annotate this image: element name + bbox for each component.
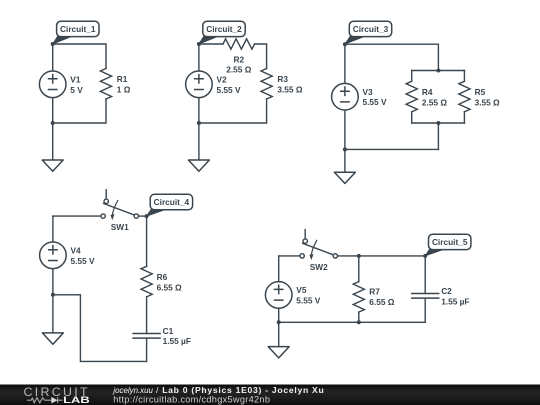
ground circuit5 — [268, 347, 289, 358]
wire circuit5 R7 branch — [358, 256, 360, 282]
wire R6 to C1 — [146, 297, 148, 334]
svg-text:V4: V4 — [71, 246, 82, 256]
node circuit5 bottom-mid — [357, 320, 361, 324]
svg-text:1.55 µF: 1.55 µF — [163, 336, 191, 346]
node circuit3 bottom-left — [343, 147, 347, 151]
svg-text:1.55 µF: 1.55 µF — [441, 296, 469, 306]
node circuit2 bottom — [197, 121, 201, 125]
svg-text:R6: R6 — [157, 272, 168, 282]
svg-text:R2: R2 — [233, 54, 244, 64]
voltage source V2 — [186, 71, 213, 98]
svg-text:1 Ω: 1 Ω — [117, 84, 131, 94]
wire circuit5 switch-left — [279, 255, 300, 257]
svg-text:5.55 V: 5.55 V — [363, 97, 387, 107]
wire circuit5 left — [278, 256, 280, 322]
wire circuit2 top-left — [199, 43, 223, 45]
node circuit4 switch-right — [145, 214, 149, 218]
switch SW2 — [300, 230, 338, 272]
node circuit5 switch-right — [357, 254, 361, 258]
svg-text:R3: R3 — [277, 74, 288, 84]
svg-text:C1: C1 — [163, 326, 174, 336]
label bubble Circuit_3 — [345, 21, 392, 44]
svg-text:SW1: SW1 — [111, 222, 129, 232]
svg-text:V5: V5 — [296, 285, 307, 295]
capacitor C2 — [412, 294, 439, 299]
svg-text:3.55 Ω: 3.55 Ω — [277, 84, 302, 94]
wire circuit5 C2 branch — [424, 256, 426, 294]
capacitor C1 — [133, 334, 160, 339]
svg-text:Circuit_4: Circuit_4 — [154, 197, 190, 207]
svg-text:V1: V1 — [70, 75, 81, 85]
wire circuit5 switch-right — [338, 255, 426, 257]
wire circuit1 left — [52, 44, 54, 123]
svg-text:C2: C2 — [441, 286, 452, 296]
wire to ground 3 — [344, 149, 346, 172]
wire R5 leads — [463, 71, 465, 124]
switch SW1 — [101, 190, 139, 232]
voltage source V3 — [332, 83, 359, 110]
wire circuit4 left — [52, 216, 54, 295]
voltage source V4 — [40, 242, 67, 269]
svg-text:5.55 V: 5.55 V — [296, 295, 320, 305]
voltage source V1 — [39, 71, 66, 98]
svg-text:Circuit_5: Circuit_5 — [432, 237, 468, 247]
node circuit5 corner — [423, 254, 427, 258]
ground circuit3 — [334, 172, 355, 183]
label bubble Circuit_5 — [425, 234, 471, 256]
ground circuit2 — [188, 160, 209, 171]
svg-text:6.55 Ω: 6.55 Ω — [369, 297, 394, 307]
node circuit1 top — [51, 42, 55, 46]
node circuit2 top — [197, 42, 201, 46]
svg-text:V3: V3 — [363, 87, 374, 97]
svg-text:R7: R7 — [369, 287, 380, 297]
svg-text:V2: V2 — [217, 75, 228, 85]
svg-text:Circuit_3: Circuit_3 — [353, 24, 389, 34]
node circuit1 bottom — [51, 121, 55, 125]
wire to ground 1 — [52, 123, 54, 160]
resistor R5 — [459, 81, 470, 112]
label bubble Circuit_2 — [199, 21, 245, 44]
wire circuit3 top — [345, 44, 439, 70]
wire circuit3 bottom — [345, 148, 439, 150]
svg-text:Circuit_1: Circuit_1 — [60, 24, 96, 34]
wire circuit4 bottom — [53, 295, 147, 362]
svg-text:5.55 V: 5.55 V — [217, 85, 241, 95]
logo squiggle resistor-diode — [27, 397, 63, 403]
node circuit4 bottom-left — [51, 293, 55, 297]
wire circuit2 right-bottom — [199, 99, 267, 123]
voltage source V5 — [265, 282, 292, 309]
svg-text:LAB: LAB — [63, 394, 90, 405]
svg-text:R1: R1 — [117, 74, 128, 84]
resistor R3 — [261, 69, 272, 100]
wire circuit4 switch-left — [53, 215, 101, 217]
node circuit3 parallel top — [436, 69, 440, 73]
wire C2 down — [424, 298, 426, 322]
wire circuit1 right-bottom — [53, 99, 106, 123]
resistor R2 — [223, 39, 255, 49]
ground circuit1 — [42, 160, 63, 171]
resistor R4 — [406, 81, 417, 112]
resistor R1 — [100, 69, 111, 100]
wire circuit2 left — [198, 44, 200, 123]
label bubble Circuit_4 — [147, 194, 193, 216]
svg-text:6.55 Ω: 6.55 Ω — [157, 282, 182, 292]
wire R4 leads — [411, 71, 413, 124]
wire circuit4 switch-right — [139, 215, 147, 217]
wire circuit3 left — [344, 44, 346, 149]
svg-text:2.55 Ω: 2.55 Ω — [226, 64, 251, 74]
wire C1 down — [146, 338, 148, 361]
wire circuit1 top — [53, 44, 106, 69]
node circuit5 bottom-left — [277, 320, 281, 324]
svg-text:R5: R5 — [475, 87, 486, 97]
ground circuit4 — [42, 333, 63, 344]
wire to ground 4 — [52, 295, 54, 333]
resistor R6 — [141, 266, 152, 297]
svg-text:5 V: 5 V — [70, 85, 83, 95]
svg-text:Circuit_2: Circuit_2 — [206, 24, 242, 34]
label bubble Circuit_1 — [53, 21, 99, 44]
wire to ground 5 — [278, 322, 280, 346]
svg-text:2.55 Ω: 2.55 Ω — [422, 97, 447, 107]
wire circuit3 parallel top bar — [412, 70, 465, 72]
svg-text:SW2: SW2 — [310, 262, 328, 272]
svg-text:R4: R4 — [422, 87, 433, 97]
node circuit3 top-left — [343, 42, 347, 46]
wire circuit5 bottom — [279, 321, 426, 323]
wire circuit2 top-right — [255, 44, 267, 69]
resistor R7 — [353, 282, 364, 313]
wire R7 lower — [358, 312, 360, 322]
svg-text:3.55 Ω: 3.55 Ω — [475, 97, 500, 107]
wire circuit3 parallel bottom bar — [412, 123, 465, 149]
wire to ground 2 — [198, 123, 200, 160]
wire circuit4 right branch upper — [146, 216, 148, 266]
node circuit3 parallel bottom — [436, 121, 440, 125]
svg-text:5.55 V: 5.55 V — [71, 256, 95, 266]
svg-text:http://circuitlab.com/cdhgx5wg: http://circuitlab.com/cdhgx5wgr42nb — [113, 395, 270, 405]
logo diode triangle — [51, 397, 57, 404]
